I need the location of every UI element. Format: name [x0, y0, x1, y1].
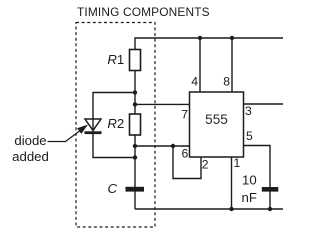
wire diode branch bottom [93, 134, 135, 158]
wire pin 5 [244, 146, 271, 188]
annotation leader arrow [48, 131, 80, 142]
wire pin 2 [173, 146, 201, 179]
wire R1 to R2 [134, 71, 136, 115]
capacitor 10nF [262, 187, 279, 192]
resistor R2 [130, 114, 141, 135]
wire pin 1 [231, 157, 233, 209]
svg-text:2: 2 [202, 158, 209, 172]
wire ground bottom rail [135, 208, 283, 210]
svg-text:1: 1 [234, 156, 241, 170]
svg-text:5: 5 [246, 129, 253, 143]
svg-text:R2: R2 [107, 116, 124, 131]
svg-text:added: added [12, 149, 49, 164]
svg-text:3: 3 [245, 104, 252, 118]
capacitor C [126, 187, 145, 192]
node junction dots [198, 36, 202, 40]
wire pin 6 [135, 145, 190, 147]
resistor R1 [130, 50, 141, 71]
svg-text:TIMING COMPONENTS: TIMING COMPONENTS [77, 5, 210, 19]
dashed box timing components [76, 23, 155, 228]
wire diode branch top [93, 93, 135, 120]
wire R2 to capacitor C [134, 135, 136, 187]
wire VCC top rail [135, 38, 283, 50]
svg-text:7: 7 [181, 108, 188, 122]
diode D1 [85, 119, 101, 131]
op-amp U1 555 timer box [190, 92, 244, 157]
wire pin 8 [231, 38, 233, 92]
wire 10nF to ground [269, 192, 271, 210]
svg-text:nF: nF [242, 190, 257, 205]
svg-text:4: 4 [191, 75, 198, 89]
wire pin 4 [199, 38, 201, 92]
wire C to ground rail [134, 192, 136, 210]
svg-text:555: 555 [205, 112, 228, 127]
svg-text:R1: R1 [107, 52, 124, 67]
svg-text:10: 10 [242, 173, 257, 188]
svg-text:8: 8 [223, 75, 230, 89]
svg-text:C: C [108, 181, 118, 196]
wire pin 3 [244, 103, 284, 105]
wire pin 7 [135, 103, 190, 105]
svg-text:diode: diode [14, 133, 46, 148]
svg-text:6: 6 [182, 147, 189, 161]
